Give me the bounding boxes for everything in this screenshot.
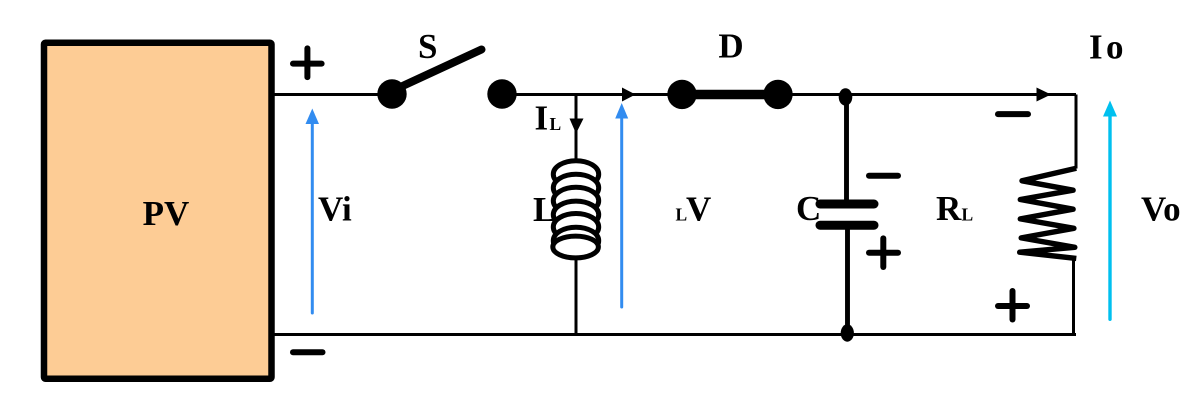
svg-text:Vo: Vo: [1141, 190, 1181, 229]
svg-text:L: L: [962, 205, 974, 225]
svg-text:V: V: [686, 190, 711, 229]
svg-text:L: L: [550, 114, 562, 134]
svg-text:PV: PV: [143, 194, 190, 233]
svg-text:o: o: [1106, 27, 1124, 66]
svg-text:D: D: [718, 27, 743, 66]
svg-text:R: R: [936, 189, 962, 228]
svg-text:Vi: Vi: [318, 190, 352, 229]
svg-text:S: S: [418, 27, 437, 66]
svg-text:I: I: [535, 99, 549, 138]
svg-text:I: I: [1089, 27, 1103, 66]
